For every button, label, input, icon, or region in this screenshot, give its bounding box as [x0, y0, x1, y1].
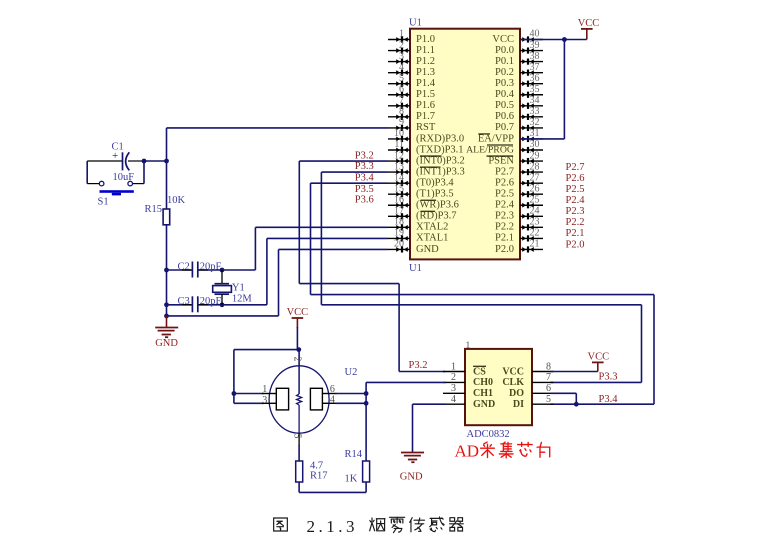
svg-text:3: 3 [451, 383, 456, 394]
svg-text:2.1.3: 2.1.3 [307, 517, 359, 536]
IC ADC0832 body [465, 349, 532, 425]
U1 pin 14 (T0)P3.4 [388, 172, 410, 186]
ADC pin 7 CLK [532, 372, 554, 383]
svg-text:R17: R17 [310, 470, 328, 481]
svg-text:34: 34 [530, 95, 540, 106]
svg-text:Y1: Y1 [232, 283, 245, 294]
svg-text:PSEN: PSEN [488, 155, 514, 166]
svg-text:26: 26 [530, 183, 540, 194]
U1 pin 28 P2.7 [520, 161, 543, 175]
wire sensor output to CH0 [365, 382, 367, 461]
svg-text:(T1)P3.5: (T1)P3.5 [416, 189, 454, 200]
svg-text:6: 6 [330, 384, 335, 395]
U1 pin name P1.7 [416, 111, 435, 122]
U1 pin name P1.0 [416, 34, 435, 45]
U1 pin name ALE/PROG [466, 144, 514, 155]
wire reset rail upper [166, 128, 168, 209]
svg-text:RST: RST [416, 122, 436, 133]
IC U1 8051 MCU body [410, 29, 520, 260]
svg-text:(INT0)P3.2: (INT0)P3.2 [416, 155, 465, 166]
svg-text:P1.3: P1.3 [416, 67, 435, 78]
U1 pin 25 P2.4 [520, 194, 543, 208]
U1 pin 35 P0.4 [520, 84, 543, 98]
svg-text:P1.7: P1.7 [416, 111, 435, 122]
svg-text:18: 18 [394, 217, 404, 228]
capacitor C3 [182, 296, 208, 312]
svg-text:23: 23 [530, 217, 540, 228]
svg-text:35: 35 [530, 84, 540, 95]
resistor R15 [163, 209, 170, 225]
svg-text:ADC0832: ADC0832 [467, 429, 510, 440]
U1 pin 13 (INT1)P3.3 [388, 161, 410, 175]
svg-text:(RXD)P3.0: (RXD)P3.0 [416, 133, 464, 144]
U1 pin 31 EA/VPP [520, 128, 543, 142]
svg-text:4: 4 [330, 394, 335, 405]
svg-text:C2: C2 [178, 262, 190, 273]
svg-text:36: 36 [530, 73, 540, 84]
ADC pin 5 DI [532, 394, 554, 405]
svg-text:5: 5 [292, 434, 303, 439]
crystal Y1 [213, 270, 232, 305]
svg-text:20pF: 20pF [200, 296, 222, 307]
wire C3 row [167, 304, 192, 306]
svg-text:C3: C3 [178, 296, 190, 307]
svg-text:VCC: VCC [588, 351, 610, 362]
U1 pin name PSEN [487, 155, 515, 166]
svg-text:P3.3: P3.3 [355, 161, 374, 172]
U1 pin name (T0)P3.4 [416, 177, 454, 188]
U1 pin 8 P1.7 [388, 106, 410, 120]
svg-text:P1.5: P1.5 [416, 89, 435, 100]
U1 pin name P1.4 [416, 78, 436, 89]
U1 pin 39 P0.0 [520, 40, 543, 54]
svg-text:R14: R14 [345, 449, 363, 460]
ADC pin name CH0 [473, 377, 493, 388]
svg-text:P1.2: P1.2 [416, 56, 435, 67]
U1 pin 10 (RXD)P3.0 [388, 128, 410, 142]
U1 pin name (T1)P3.5 [416, 189, 454, 200]
svg-text:U1: U1 [409, 18, 422, 29]
wire sensor pin5 to R17 [298, 445, 300, 461]
wire reset rail lower [166, 225, 168, 316]
svg-text:12: 12 [394, 150, 404, 161]
svg-text:22: 22 [530, 228, 540, 239]
svg-text:5: 5 [546, 394, 551, 405]
U1 pin 37 P0.2 [520, 62, 543, 76]
U1 pin 26 P2.5 [520, 183, 543, 197]
U1 pin name P2.2 [495, 222, 514, 233]
caption figure text [274, 517, 464, 536]
svg-text:P2.7: P2.7 [566, 162, 585, 173]
svg-text:9: 9 [399, 117, 404, 128]
wire XTAL2 pin18 [255, 226, 388, 228]
svg-text:P2.0: P2.0 [495, 244, 514, 255]
node C1 right [142, 159, 147, 164]
svg-text:GND: GND [155, 338, 178, 349]
U1 pin name (INT0)P3.2 [416, 155, 465, 166]
wire ADC GND pin4 [413, 403, 447, 405]
switch S1 [99, 181, 134, 195]
svg-text:24: 24 [530, 206, 540, 217]
U1 pin name P2.4 [495, 200, 515, 211]
svg-text:P2.7: P2.7 [495, 166, 514, 177]
svg-text:12M: 12M [232, 293, 253, 304]
svg-text:P2.2: P2.2 [495, 222, 514, 233]
ADC pin name CS [473, 366, 486, 377]
U1 pin 29 PSEN [520, 150, 543, 164]
U1 pin name P0.2 [495, 67, 514, 78]
svg-text:GND: GND [400, 472, 423, 483]
ADC pin 3 CH1 [443, 383, 465, 394]
U1 pin 11 (TXD)P3.1 [388, 139, 410, 153]
svg-text:6: 6 [546, 383, 551, 394]
svg-text:VCC: VCC [287, 307, 309, 318]
svg-text:29: 29 [530, 150, 540, 161]
svg-text:19: 19 [394, 228, 404, 239]
svg-text:CH0: CH0 [473, 377, 493, 388]
svg-text:2: 2 [399, 40, 404, 51]
U1 pin 33 P0.6 [520, 106, 543, 120]
U1 pin 36 P0.3 [520, 73, 543, 87]
svg-text:5: 5 [399, 73, 404, 84]
node DO-DI junction [575, 393, 577, 404]
svg-text:1: 1 [451, 361, 456, 372]
svg-text:P3.4: P3.4 [599, 394, 619, 405]
svg-text:27: 27 [530, 172, 540, 183]
svg-text:VCC: VCC [492, 34, 514, 45]
U1 pin 18 XTAL2 [388, 217, 410, 231]
U1 pin 12 (INT0)P3.2 [388, 150, 410, 164]
wire VCC to pin31 EA vertical [563, 40, 565, 139]
svg-text:33: 33 [530, 106, 540, 117]
U1 pin 6 P1.5 [388, 84, 410, 98]
svg-text:P1.0: P1.0 [416, 34, 435, 45]
svg-text:4: 4 [451, 394, 456, 405]
svg-text:P0.2: P0.2 [495, 67, 514, 78]
svg-text:AD: AD [455, 442, 480, 461]
U1 pin name P0.6 [495, 111, 514, 122]
node rail-C3 [164, 302, 169, 307]
ADC pin 1 CS [443, 361, 465, 372]
wire ADC VCC pin8 [551, 371, 598, 373]
U1 pin name P0.0 [495, 45, 514, 56]
U1 pin 24 P2.3 [520, 206, 543, 220]
svg-text:P2.3: P2.3 [495, 211, 514, 222]
U1 pin name P0.3 [495, 78, 514, 89]
svg-text:P3.3: P3.3 [599, 372, 618, 383]
U1 pin name P0.7 [495, 122, 514, 133]
svg-text:1: 1 [466, 341, 471, 351]
node sensor pins 1-3 [232, 391, 237, 396]
red label AD acquisition chip [455, 442, 550, 461]
svg-text:30: 30 [530, 139, 540, 150]
node sensor out 6 [364, 391, 369, 396]
U1 pin name (RXD)P3.0 [416, 133, 464, 144]
svg-text:P1.6: P1.6 [416, 100, 435, 111]
svg-text:P0.5: P0.5 [495, 100, 514, 111]
svg-text:16: 16 [394, 194, 404, 205]
svg-text:EA/VPP: EA/VPP [478, 133, 514, 144]
U1 pin name XTAL1 [416, 233, 448, 244]
U1 pin name RST [416, 122, 436, 133]
svg-text:VCC: VCC [578, 18, 600, 29]
svg-text:P2.5: P2.5 [566, 184, 585, 195]
wire GND pin20 [279, 248, 389, 250]
node VCC-EA junction [562, 37, 567, 42]
power VCC (ADC) [588, 351, 610, 371]
wire sensor left branch [234, 349, 299, 351]
U1 pin 27 P2.6 [520, 172, 543, 186]
svg-text:28: 28 [530, 161, 540, 172]
svg-text:P0.0: P0.0 [495, 45, 514, 56]
resistor R17 [296, 461, 303, 482]
svg-text:CH1: CH1 [473, 388, 493, 399]
U1 pin 19 XTAL1 [388, 228, 410, 242]
svg-text:P3.5: P3.5 [355, 184, 374, 195]
svg-text:P1.1: P1.1 [416, 45, 435, 56]
U1 pin 32 P0.7 [520, 117, 543, 131]
svg-text:20: 20 [394, 239, 404, 250]
svg-text:(RD)P3.7: (RD)P3.7 [416, 211, 457, 222]
U1 pin name P1.2 [416, 56, 435, 67]
wire RST net [167, 127, 389, 129]
svg-text:P1.4: P1.4 [416, 78, 436, 89]
svg-text:39: 39 [530, 40, 540, 51]
wire S1 right to C1 node [132, 183, 144, 185]
U1 pin 4 P1.3 [388, 62, 410, 76]
svg-text:VCC: VCC [502, 366, 524, 377]
node C3-Y1 [220, 302, 225, 307]
U1 pin name P1.1 [416, 45, 435, 56]
U1 pin name (TXD)P3.1 [416, 144, 464, 155]
wire pin40 to VCC [520, 39, 587, 41]
U1 pin 16 (WR)P3.6 [388, 194, 410, 208]
svg-text:DI: DI [513, 399, 524, 410]
U1 pin 7 P1.6 [388, 95, 410, 109]
svg-text:38: 38 [530, 51, 540, 62]
svg-text:P3.6: P3.6 [355, 194, 374, 205]
svg-text:7: 7 [546, 372, 551, 383]
U1 pin name (RD)P3.7 [416, 211, 457, 222]
U1 pin name P0.4 [495, 89, 515, 100]
U1 pin name P1.5 [416, 89, 435, 100]
ADC pin name GND [473, 399, 495, 410]
svg-text:37: 37 [530, 62, 540, 73]
svg-text:32: 32 [530, 117, 540, 128]
ADC pin name CH1 [473, 388, 493, 399]
U1 pin 5 P1.4 [388, 73, 410, 87]
U1 pin name P1.6 [416, 100, 435, 111]
U1 pin name P0.1 [495, 56, 514, 67]
svg-text:S1: S1 [98, 196, 109, 207]
svg-text:P2.2: P2.2 [566, 217, 585, 228]
svg-text:P0.1: P0.1 [495, 56, 514, 67]
ADC pin 8 VCC [532, 361, 554, 372]
gas sensor U2 [262, 366, 337, 446]
svg-text:20pF: 20pF [200, 262, 222, 273]
U1 pin name P2.0 [495, 244, 514, 255]
svg-text:8: 8 [399, 106, 404, 117]
U1 pin name GND [416, 244, 439, 255]
svg-text:P3.2: P3.2 [409, 360, 428, 371]
U1 pin 20 GND [388, 239, 410, 253]
svg-text:P2.5: P2.5 [495, 189, 514, 200]
wire C2 row [167, 269, 192, 271]
svg-text:P2.1: P2.1 [495, 233, 514, 244]
svg-text:1K: 1K [345, 473, 358, 484]
svg-text:14: 14 [394, 172, 404, 183]
ground GND (left) [155, 316, 178, 349]
wire sensor pin4 [336, 402, 367, 404]
U1 pin name XTAL2 [416, 222, 448, 233]
svg-text:31: 31 [530, 128, 540, 139]
U1 pin 23 P2.2 [520, 217, 543, 231]
U1 pin name VCC [492, 34, 514, 45]
svg-text:2: 2 [292, 357, 303, 362]
svg-text:10K: 10K [167, 195, 186, 206]
wire XTAL1 pin19 [267, 237, 388, 239]
svg-text:P2.4: P2.4 [566, 195, 586, 206]
svg-text:CLK: CLK [502, 377, 524, 388]
node rail-C2 [164, 268, 169, 273]
U1 pin 1 P1.0 [388, 29, 410, 43]
node rail-C1 [164, 159, 169, 164]
svg-text:7: 7 [399, 95, 404, 106]
svg-text:11: 11 [394, 139, 404, 150]
svg-text:P2.3: P2.3 [566, 206, 585, 217]
wire P3.2 from pin12 [299, 160, 388, 162]
U1 pin 38 P0.1 [520, 51, 543, 65]
svg-text:P3.4: P3.4 [355, 173, 375, 184]
wire C1 to rail [144, 160, 167, 162]
svg-text:4: 4 [399, 62, 404, 73]
svg-text:21: 21 [530, 239, 540, 250]
node rail-GND [164, 314, 169, 319]
svg-text:GND: GND [473, 399, 495, 410]
U1 pin name P2.1 [495, 233, 514, 244]
node sensor VCC [296, 347, 301, 352]
svg-text:6: 6 [399, 84, 404, 95]
U1 pin 30 ALE/PROG [520, 139, 543, 153]
wire VCC to sensor top [296, 327, 298, 350]
svg-text:CS: CS [473, 366, 486, 377]
svg-text:2: 2 [451, 372, 456, 383]
svg-text:8: 8 [546, 361, 551, 372]
wire to S1 left [87, 183, 99, 185]
svg-text:C1: C1 [112, 141, 124, 152]
node sensor out 4 [364, 401, 369, 406]
wire bottom rail [167, 315, 279, 317]
power VCC (sensor) [287, 307, 309, 328]
wire resistor bottoms [298, 482, 300, 492]
wire sensor pin3 [234, 402, 264, 404]
U1 pin name (INT1)P3.3 [416, 166, 465, 177]
svg-text:3: 3 [399, 51, 404, 62]
svg-text:R15: R15 [145, 204, 163, 215]
svg-text:P0.3: P0.3 [495, 78, 514, 89]
svg-text:10: 10 [394, 128, 404, 139]
U1 pin name P2.7 [495, 166, 514, 177]
svg-text:GND: GND [416, 244, 439, 255]
svg-text:P2.6: P2.6 [495, 177, 514, 188]
wire left branch down [86, 161, 88, 184]
wire P3.3 from pin13 [321, 171, 388, 173]
U1 pin name P2.6 [495, 177, 514, 188]
svg-text:15: 15 [394, 183, 404, 194]
svg-text:P2.1: P2.1 [566, 228, 585, 239]
U1 pin name P0.5 [495, 100, 514, 111]
ADC pin 2 CH0 [443, 372, 465, 383]
svg-text:DO: DO [509, 388, 524, 399]
U1 pin name P1.3 [416, 67, 435, 78]
capacitor C1 [87, 150, 144, 171]
ground GND (ADC) [400, 453, 424, 483]
wire P3.4 from pin14 [311, 182, 389, 184]
svg-text:13: 13 [394, 161, 404, 172]
U1 pin 34 P0.5 [520, 95, 543, 109]
U1 pin 40 VCC [520, 29, 543, 43]
svg-text:P0.7: P0.7 [495, 122, 514, 133]
svg-text:ALE/PROG: ALE/PROG [466, 144, 514, 155]
svg-text:U2: U2 [345, 367, 358, 378]
svg-text:25: 25 [530, 194, 540, 205]
svg-text:P2.0: P2.0 [566, 239, 585, 250]
svg-text:40: 40 [530, 29, 540, 40]
power VCC (top right) [578, 18, 600, 40]
U1 pin 3 P1.2 [388, 51, 410, 65]
svg-text:P2.6: P2.6 [566, 173, 585, 184]
svg-text:1: 1 [262, 384, 267, 395]
U1 pin name (WR)P3.6 [416, 200, 459, 211]
wire sensor pin1 [234, 393, 264, 395]
svg-text:U1: U1 [409, 263, 422, 274]
svg-text:P3.2: P3.2 [355, 150, 374, 161]
svg-text:XTAL2: XTAL2 [416, 222, 448, 233]
U1 pin 21 P2.0 [520, 239, 543, 253]
ADC pin 4 GND [443, 394, 465, 405]
svg-text:17: 17 [394, 206, 404, 217]
svg-text:(INT1)P3.3: (INT1)P3.3 [416, 166, 465, 177]
U1 pin name EA/VPP [478, 133, 514, 144]
svg-text:P0.4: P0.4 [495, 89, 515, 100]
svg-text:(WR)P3.6: (WR)P3.6 [416, 200, 459, 211]
svg-text:P2.4: P2.4 [495, 200, 515, 211]
svg-text:P0.6: P0.6 [495, 111, 514, 122]
U1 pin 2 P1.1 [388, 40, 410, 54]
svg-text:3: 3 [262, 395, 267, 406]
U1 pin 9 RST [388, 117, 410, 131]
svg-text:XTAL1: XTAL1 [416, 233, 448, 244]
U1 pin 15 (T1)P3.5 [388, 183, 410, 197]
svg-text:(T0)P3.4: (T0)P3.4 [416, 177, 454, 188]
resistor R14 [363, 461, 370, 482]
node C2-Y1 [220, 268, 225, 273]
ADC pin 6 DO [532, 383, 554, 394]
U1 pin 17 (RD)P3.7 [388, 206, 410, 220]
capacitor C2 [182, 262, 208, 278]
svg-text:(TXD)P3.1: (TXD)P3.1 [416, 144, 464, 155]
U1 pin name P2.5 [495, 189, 514, 200]
U1 pin name P2.3 [495, 211, 514, 222]
wire sensor pin6 [336, 393, 367, 395]
wire to pin31 EA [520, 138, 564, 140]
svg-text:1: 1 [399, 29, 404, 40]
U1 pin 22 P2.1 [520, 228, 543, 242]
